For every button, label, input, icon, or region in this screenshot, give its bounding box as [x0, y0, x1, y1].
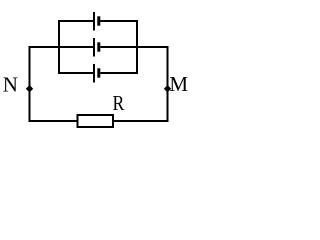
wire: battery bank right bus (vertical): [136, 20, 138, 74]
battery cell E2 (middle branch): long positive plate: [93, 38, 95, 57]
svg-text:M: M: [169, 72, 188, 96]
wire: bottom branch right segment from cell E3: [100, 72, 138, 74]
battery cell E3 (bottom branch): short negative plate: [97, 68, 100, 77]
wire: top branch left segment to cell E1: [58, 20, 93, 22]
svg-text:R: R: [113, 91, 125, 115]
wire: bottom right segment from resistor R to M: [114, 120, 169, 122]
wire: right vertical wire through node M: [167, 46, 169, 122]
battery cell E1 (top branch): long positive plate: [93, 12, 95, 31]
wire: battery bank left bus (vertical): [58, 20, 60, 74]
battery cell E2 (middle branch): short negative plate: [97, 42, 100, 51]
battery cell E1 (top branch): short negative plate: [97, 16, 100, 25]
resistor R body: [78, 115, 114, 127]
wire: middle horizontal left segment from node N branch to cell E2: [30, 46, 94, 48]
wire: middle horizontal right segment from cell E2 to right branch: [100, 46, 167, 48]
wire: bottom left segment from N to resistor R: [29, 120, 77, 122]
battery cell E3 (bottom branch): long positive plate: [93, 64, 95, 83]
wire: top branch right segment from cell E1: [100, 20, 138, 22]
svg-text:N: N: [3, 73, 18, 97]
wire: left vertical wire through node N: [29, 46, 31, 122]
node N junction dot (diamond): [26, 85, 33, 93]
wire: bottom branch left segment to cell E3: [58, 72, 93, 74]
node M junction dot (diamond): [164, 85, 171, 93]
